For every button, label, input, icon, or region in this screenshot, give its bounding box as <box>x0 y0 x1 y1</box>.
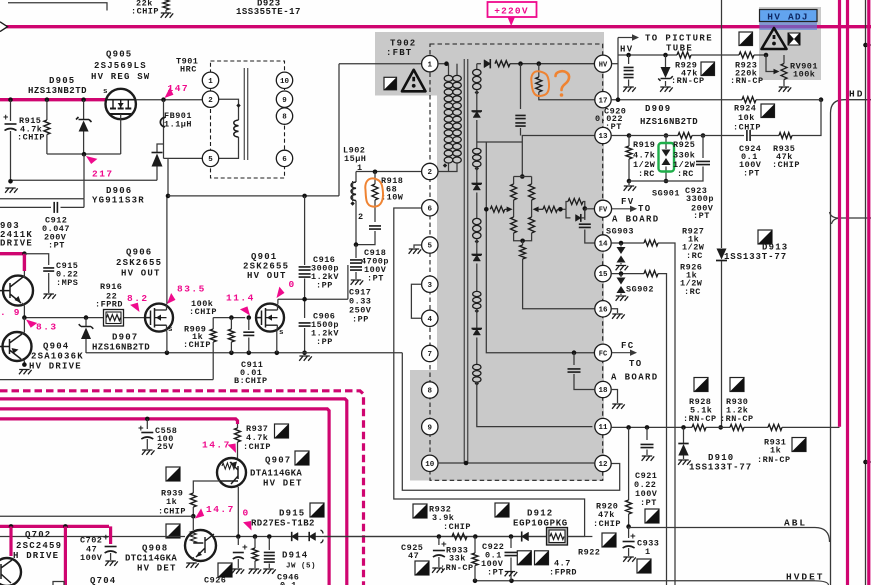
icons pair <box>517 551 531 565</box>
FBT pin 9 <box>422 419 438 435</box>
icon R929 <box>701 62 715 76</box>
Q702 transistor <box>0 558 21 585</box>
svg-text::CHIP: :CHIP <box>243 442 271 452</box>
T901 pin 5 <box>202 150 218 166</box>
T901 pin 10 <box>276 72 292 88</box>
FC feed line <box>486 142 594 353</box>
svg-text:1: 1 <box>645 547 651 557</box>
internal cap to pin13 <box>520 64 522 109</box>
svg-text::CHIP: :CHIP <box>593 519 621 529</box>
HV series resistor <box>495 61 510 67</box>
svg-text:+220V: +220V <box>494 6 529 17</box>
svg-text:2SK2655: 2SK2655 <box>116 258 162 268</box>
svg-text:10k: 10k <box>738 113 755 123</box>
svg-text:1: 1 <box>428 61 433 69</box>
svg-text:HV OUT: HV OUT <box>247 271 287 281</box>
Q906 drain line <box>166 196 168 304</box>
svg-text::RN-CP: :RN-CP <box>671 76 705 86</box>
svg-text:HV DET: HV DET <box>263 479 303 489</box>
svg-text:T902: T902 <box>390 39 416 49</box>
svg-text:13: 13 <box>598 133 608 141</box>
icon R932 <box>413 504 427 518</box>
capacitor C912 <box>54 202 57 213</box>
svg-text:R925: R925 <box>673 140 695 150</box>
svg-text:YG911S3R: YG911S3R <box>92 196 145 206</box>
FBT pin 10 <box>422 455 438 471</box>
svg-text:0: 0 <box>289 279 296 290</box>
svg-text:2SA1036K: 2SA1036K <box>31 352 84 362</box>
svg-text::CHIP: :CHIP <box>183 340 211 350</box>
FBT pin 15 <box>595 265 611 281</box>
svg-text:+: + <box>242 542 248 553</box>
T901 pin 8 <box>276 108 292 124</box>
svg-text:HRC: HRC <box>180 65 197 75</box>
HD bus <box>831 100 871 585</box>
pin14 row <box>612 242 644 244</box>
pin16 ground <box>612 309 618 313</box>
Q908 transistor DTC114GKA <box>192 516 194 530</box>
svg-text:HV ADJ: HV ADJ <box>767 11 808 22</box>
Q904 collector <box>22 318 24 334</box>
icon R920 <box>602 533 616 547</box>
R920 column <box>628 427 630 500</box>
svg-text::RN-CP: :RN-CP <box>720 414 754 424</box>
svg-text:83.5: 83.5 <box>177 284 206 295</box>
HV-det sense row <box>0 536 185 538</box>
FBT pin 4 <box>422 310 438 326</box>
svg-text:10: 10 <box>425 461 435 469</box>
flag 8.3 <box>24 316 37 329</box>
svg-text:HV REG SW: HV REG SW <box>91 72 150 82</box>
svg-text:s: s <box>279 329 284 337</box>
svg-text:2: 2 <box>208 97 213 105</box>
resistor R922 FPRD box <box>547 528 568 546</box>
svg-text::RN-CP: :RN-CP <box>730 76 764 86</box>
resistor R923 <box>739 52 754 58</box>
svg-text::MPS: :MPS <box>56 278 78 288</box>
svg-text:6: 6 <box>282 156 287 164</box>
Q903 transistor <box>3 276 33 306</box>
svg-text:15: 15 <box>598 271 608 279</box>
internal resistor (orange circled) <box>538 64 540 77</box>
screen wiper right <box>533 207 539 213</box>
resistor R930 <box>730 424 744 430</box>
capacitor C946 <box>268 537 270 551</box>
svg-text:+: + <box>630 531 636 542</box>
svg-text:8.3: 8.3 <box>36 322 58 333</box>
svg-text:1: 1 <box>208 78 213 86</box>
icon C933 <box>637 559 651 573</box>
spark gap SG902 <box>620 274 622 277</box>
green annotation box <box>659 143 675 172</box>
svg-text::PT: :PT <box>605 122 622 132</box>
svg-text:TO: TO <box>629 359 643 369</box>
svg-text:8: 8 <box>282 114 287 122</box>
svg-text:RD27ES-T1B2: RD27ES-T1B2 <box>251 519 315 529</box>
icon R924 <box>761 104 775 118</box>
flag 217 <box>84 153 97 166</box>
flag 14.7 Q907 <box>228 442 240 455</box>
FBT pin 16 <box>595 301 611 317</box>
svg-text:HD: HD <box>849 89 864 100</box>
C916 <box>304 196 306 265</box>
svg-text:14.7: 14.7 <box>206 504 235 515</box>
svg-text:17: 17 <box>598 97 607 105</box>
wire to C915 <box>24 254 48 265</box>
svg-text:1SS133T-77: 1SS133T-77 <box>689 463 752 473</box>
flag 8.2 <box>130 301 142 314</box>
svg-text:2SC2459: 2SC2459 <box>16 541 62 551</box>
icon R931 <box>792 438 806 452</box>
svg-text::PT: :PT <box>693 211 710 221</box>
svg-text:100k: 100k <box>793 70 815 80</box>
capacitor C917 <box>355 245 357 258</box>
svg-text:+: + <box>103 532 109 543</box>
FV arrow TO A BOARD <box>612 208 631 210</box>
C912 rows <box>0 198 84 200</box>
warning triangle FBT <box>402 70 426 92</box>
pin15 row <box>612 273 644 275</box>
resistor R927 <box>644 240 658 246</box>
stub to rail <box>831 426 840 428</box>
resistor R925 <box>678 133 692 139</box>
Q903 emitter to row <box>22 303 24 318</box>
icon R928 <box>694 378 708 392</box>
svg-text:A BOARD: A BOARD <box>611 373 659 383</box>
svg-text:Q904: Q904 <box>43 342 69 352</box>
svg-text:B:CHIP: B:CHIP <box>234 376 268 386</box>
svg-text:R924: R924 <box>734 104 756 114</box>
FBT pin 11 <box>595 418 611 434</box>
svg-text::RC: :RC <box>686 251 703 261</box>
T901 pin 2 <box>202 91 218 107</box>
diode D910 <box>683 427 685 443</box>
svg-text:18: 18 <box>598 387 608 395</box>
R939 base feed <box>193 481 220 493</box>
T901 pin 9 <box>276 91 292 107</box>
svg-text::PT: :PT <box>48 241 65 251</box>
svg-text:R919: R919 <box>633 140 655 150</box>
capacitor C911 <box>248 318 250 330</box>
diode D913 <box>717 249 727 260</box>
HV node wires <box>612 63 618 65</box>
svg-text:100V: 100V <box>80 553 103 563</box>
capacitor C925 <box>438 537 440 546</box>
pin5 ground <box>414 245 422 248</box>
svg-text:1SS133T-77: 1SS133T-77 <box>724 252 787 262</box>
icon D915 <box>310 503 324 517</box>
resistor R935 <box>779 133 792 139</box>
svg-text:Q905: Q905 <box>106 50 132 60</box>
svg-text:TUBE: TUBE <box>666 44 693 54</box>
ground D909 <box>660 87 673 92</box>
svg-text::PT: :PT <box>640 498 657 508</box>
spark gap SG903 <box>620 243 622 247</box>
svg-text:2: 2 <box>428 169 433 177</box>
icon R939 <box>166 467 180 481</box>
divider chains <box>514 176 532 178</box>
svg-text:14: 14 <box>598 241 608 249</box>
FBT pin 6 <box>422 200 438 216</box>
icon FBT <box>384 77 397 90</box>
FBT pin 13 <box>595 127 611 143</box>
svg-text:R922: R922 <box>578 548 600 558</box>
capacitor C918 <box>374 200 376 222</box>
svg-text:4.7k: 4.7k <box>633 151 655 161</box>
primary winding <box>438 63 447 65</box>
FC node cap to pin18 <box>573 353 575 365</box>
svg-text:1SS355TE-17: 1SS355TE-17 <box>236 7 301 17</box>
pin 3-4 jumper <box>411 284 421 318</box>
FBT pin 18 <box>595 381 611 397</box>
ground RV901 <box>779 87 792 92</box>
svg-text:14.7: 14.7 <box>202 440 231 451</box>
pin13 row right <box>612 135 629 137</box>
svg-text:+: + <box>3 113 9 123</box>
icon D912 <box>495 503 509 517</box>
D913 bus vertical <box>721 0 723 248</box>
svg-text:8: 8 <box>428 388 433 396</box>
magenta rail 1 <box>0 399 347 585</box>
pin16 wire <box>522 308 524 310</box>
T901 winding 2-5 <box>219 99 239 120</box>
ground left <box>5 188 18 193</box>
node dots on rail <box>8 97 13 102</box>
rail source chevron <box>0 22 8 32</box>
svg-text:D915: D915 <box>279 509 305 519</box>
capacitor C926 <box>237 537 239 546</box>
+220V rail across top <box>0 25 871 28</box>
wire source row corner to pin12 loop <box>402 353 619 491</box>
svg-text:SG901: SG901 <box>652 189 680 199</box>
sense row up to pin6 line <box>394 208 585 537</box>
svg-text:D905: D905 <box>49 76 75 86</box>
svg-text:DRIVE: DRIVE <box>0 239 33 249</box>
T901 pin 1 <box>202 72 218 88</box>
Q907 collector <box>237 487 239 537</box>
svg-text::PP: :PP <box>352 315 369 325</box>
bleeder lower resistor <box>522 241 524 245</box>
capacitor C921 <box>646 427 648 440</box>
node 217 vertical <box>83 154 85 199</box>
svg-text:R916: R916 <box>100 282 122 292</box>
svg-text:5: 5 <box>208 156 213 164</box>
svg-text:HV: HV <box>599 61 608 69</box>
svg-text::PP: :PP <box>316 337 333 347</box>
FBT pin 17 <box>595 92 611 108</box>
svg-text:HZS16NB2TD: HZS16NB2TD <box>640 117 698 127</box>
svg-text:1k: 1k <box>166 497 177 507</box>
Q905 transistor 2SJ569LS <box>106 89 136 119</box>
svg-text:FV: FV <box>621 197 635 207</box>
wire top-left corner <box>8 3 107 11</box>
svg-text:11.4: 11.4 <box>226 293 255 304</box>
svg-text::PT: :PT <box>487 568 504 578</box>
ABL row <box>629 527 815 529</box>
svg-text::PT: :PT <box>367 274 384 284</box>
Q904 transistor 2SA1036K <box>3 332 32 361</box>
FBT pin FV <box>594 200 611 217</box>
svg-text:D914: D914 <box>282 551 308 561</box>
svg-text:5: 5 <box>428 243 433 251</box>
icon Q908 <box>166 524 180 538</box>
Q904 emitter ground <box>21 359 24 365</box>
FV snubber R and diode <box>566 202 568 210</box>
resistor R916 FPRD box <box>104 310 124 327</box>
Q907 transistor DTA114GKA <box>217 458 246 487</box>
svg-text:0.1: 0.1 <box>280 581 297 585</box>
capacitor C924 <box>747 130 750 141</box>
capacitor C915 <box>43 268 54 271</box>
svg-text:1: 1 <box>357 163 363 173</box>
magenta vertical 2 <box>846 0 849 585</box>
svg-text:16: 16 <box>598 306 608 314</box>
potentiometer RV901 <box>766 55 775 72</box>
resistor R937 <box>237 424 239 428</box>
svg-text:JW (5): JW (5) <box>286 563 316 571</box>
diode D912 <box>522 531 529 541</box>
icon C926 <box>218 563 232 577</box>
flag 14.7 Q908 <box>192 508 205 521</box>
FV cluster cap to pin14 <box>584 209 586 220</box>
resistor R926 <box>644 271 658 277</box>
svg-text:D907: D907 <box>112 333 138 343</box>
svg-text:DTA114GKA: DTA114GKA <box>250 469 302 479</box>
diode D906 branch <box>157 144 164 152</box>
svg-text::CHIP: :CHIP <box>772 160 800 170</box>
resistor R932 <box>452 534 467 540</box>
ground 22k <box>161 13 174 18</box>
magenta rail 2 <box>0 409 329 585</box>
FB901 ferrite bead <box>163 100 165 144</box>
svg-text::RC: :RC <box>677 169 694 179</box>
svg-text::PP: :PP <box>316 281 333 291</box>
FBT pin FC <box>594 344 611 361</box>
zener D909 <box>665 55 667 67</box>
ground C917 <box>351 280 364 285</box>
flag 0 Q901 <box>273 287 286 300</box>
svg-text:9: 9 <box>282 97 287 105</box>
T901 pin 6 <box>276 150 292 166</box>
sense row continues <box>324 536 592 538</box>
ground C920 <box>623 87 636 92</box>
T902 core <box>463 59 465 463</box>
orange annotation circle around internal resistor <box>531 71 549 96</box>
svg-text:TO PICTURE: TO PICTURE <box>645 34 713 44</box>
pin17 row <box>612 99 742 101</box>
FBT pin 1 <box>422 56 438 72</box>
icon C925 <box>415 561 429 575</box>
magenta rail corner bottom-left <box>0 525 109 528</box>
magenta rail 3 <box>0 419 238 424</box>
HV rectifier diode <box>477 63 481 65</box>
svg-text::CHIP: :CHIP <box>131 7 159 17</box>
HV ADJ gray body <box>759 7 821 80</box>
svg-text:9: 9 <box>428 424 433 432</box>
svg-text:s: s <box>103 88 108 96</box>
diodes D914 D915 <box>292 532 299 541</box>
C906 <box>299 323 311 326</box>
svg-text:SG902: SG902 <box>626 285 654 295</box>
resistor 100k <box>230 318 232 329</box>
pin2 row <box>356 171 422 173</box>
icon R937 <box>275 424 289 438</box>
svg-text:1.1μH: 1.1μH <box>164 120 192 130</box>
svg-text:s: s <box>168 326 173 334</box>
svg-text::FPRD: :FPRD <box>549 568 577 578</box>
pin13 feed <box>522 136 594 177</box>
icon HV adj <box>739 32 753 46</box>
resistor R933 <box>474 537 476 554</box>
icon D913 <box>758 230 772 244</box>
ground SG901 row <box>628 181 630 185</box>
FBT pin 7 <box>422 345 438 361</box>
svg-text:FC: FC <box>621 341 635 351</box>
pin18 ground <box>612 390 618 404</box>
HV secondary ladder <box>476 64 478 69</box>
FBT pin 3 <box>422 276 438 292</box>
rail to Q905 <box>0 98 106 101</box>
wire Q905 to T901 pin2 <box>136 99 203 101</box>
svg-text:147: 147 <box>168 83 190 94</box>
resistor R941 <box>254 537 256 549</box>
capacitor C922 <box>510 537 512 549</box>
capacitor C920 <box>628 55 630 64</box>
svg-text::FPRD: :FPRD <box>95 300 123 310</box>
svg-text::RN-CP: :RN-CP <box>757 455 791 465</box>
capacitor C904 polarized left edge <box>10 100 12 121</box>
capacitor C923 <box>702 136 704 159</box>
svg-text:HZS13NB2TD: HZS13NB2TD <box>28 86 87 96</box>
row 516 from left <box>0 515 193 517</box>
pin12 core junction <box>464 461 469 466</box>
svg-text:1k: 1k <box>770 446 781 456</box>
svg-text:TO: TO <box>638 204 652 214</box>
capacitor C558 <box>145 417 150 422</box>
R909 column <box>212 318 214 329</box>
FBT pin 2 <box>422 163 438 179</box>
magenta vertical 1 <box>838 0 841 427</box>
zener D907 <box>85 318 87 326</box>
FBT pin 12 <box>595 455 611 471</box>
dashed magenta box <box>0 391 364 585</box>
Q908 emitter ground <box>192 557 194 561</box>
svg-text:A BOARD: A BOARD <box>612 215 660 225</box>
ground row y180 <box>11 179 158 181</box>
svg-text:8.2: 8.2 <box>127 293 149 304</box>
svg-text::RC: :RC <box>638 169 655 179</box>
svg-text:0: 0 <box>243 508 250 519</box>
svg-text:HV: HV <box>620 45 634 55</box>
svg-text:4: 4 <box>428 316 433 324</box>
resistor R924 <box>742 97 756 103</box>
svg-text:15μH: 15μH <box>344 154 366 164</box>
Q901 source <box>276 332 278 353</box>
row R909 bottom <box>0 379 213 381</box>
focus wiper left <box>490 206 505 212</box>
ground C915 <box>43 294 56 299</box>
svg-text:DTC114GKA: DTC114GKA <box>125 554 177 564</box>
svg-text:D906: D906 <box>106 186 132 196</box>
pin10 to pin12 core ground wire <box>438 462 594 464</box>
svg-text:. 9: . 9 <box>0 307 21 318</box>
svg-text:7: 7 <box>428 351 433 359</box>
FBT pin HV <box>594 55 611 72</box>
magenta vertical 3 <box>867 0 870 585</box>
svg-text:Q908: Q908 <box>142 544 168 554</box>
svg-text:2SJ569LS: 2SJ569LS <box>94 61 147 71</box>
svg-text:HZS16NB2TD: HZS16NB2TD <box>92 343 150 353</box>
